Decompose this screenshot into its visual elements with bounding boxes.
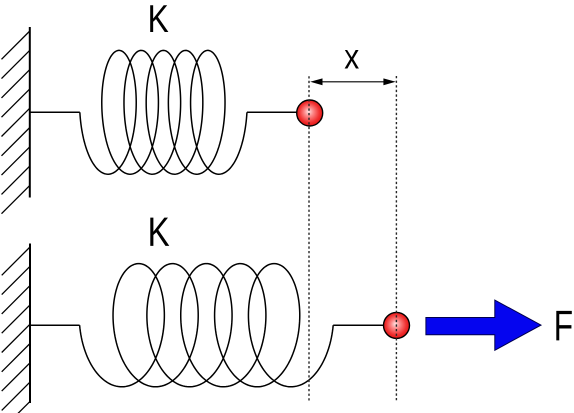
dimension arrow for displacement x xyxy=(310,78,396,85)
dotted reference line (rest position) xyxy=(308,76,310,402)
dotted reference line (displaced position) xyxy=(395,76,397,403)
label K (top spring constant) xyxy=(150,5,168,32)
wall W2 hatching xyxy=(2,247,30,413)
label x (displacement) xyxy=(345,50,359,69)
wire: spring S2 to ball M2 xyxy=(333,324,384,326)
ball M1 (top mass, rest position) xyxy=(297,100,323,126)
wire: wall W2 to spring S2 xyxy=(30,324,80,326)
ball M2 (bottom mass, displaced) xyxy=(384,312,410,338)
spring S2 coil (constant K, stretched) xyxy=(80,264,334,387)
wall W2 vertical line xyxy=(29,244,31,404)
wire: wall W1 to spring S1 xyxy=(30,111,80,113)
wire: spring S1 to ball M1 xyxy=(247,111,298,113)
spring S1 coil (constant K, at rest) xyxy=(80,50,247,174)
label F (applied force) xyxy=(556,311,571,341)
label K (bottom spring constant) xyxy=(150,218,169,246)
wall W1 vertical line xyxy=(29,27,31,198)
force arrow F xyxy=(426,300,541,350)
wall W1 hatching xyxy=(2,31,30,214)
